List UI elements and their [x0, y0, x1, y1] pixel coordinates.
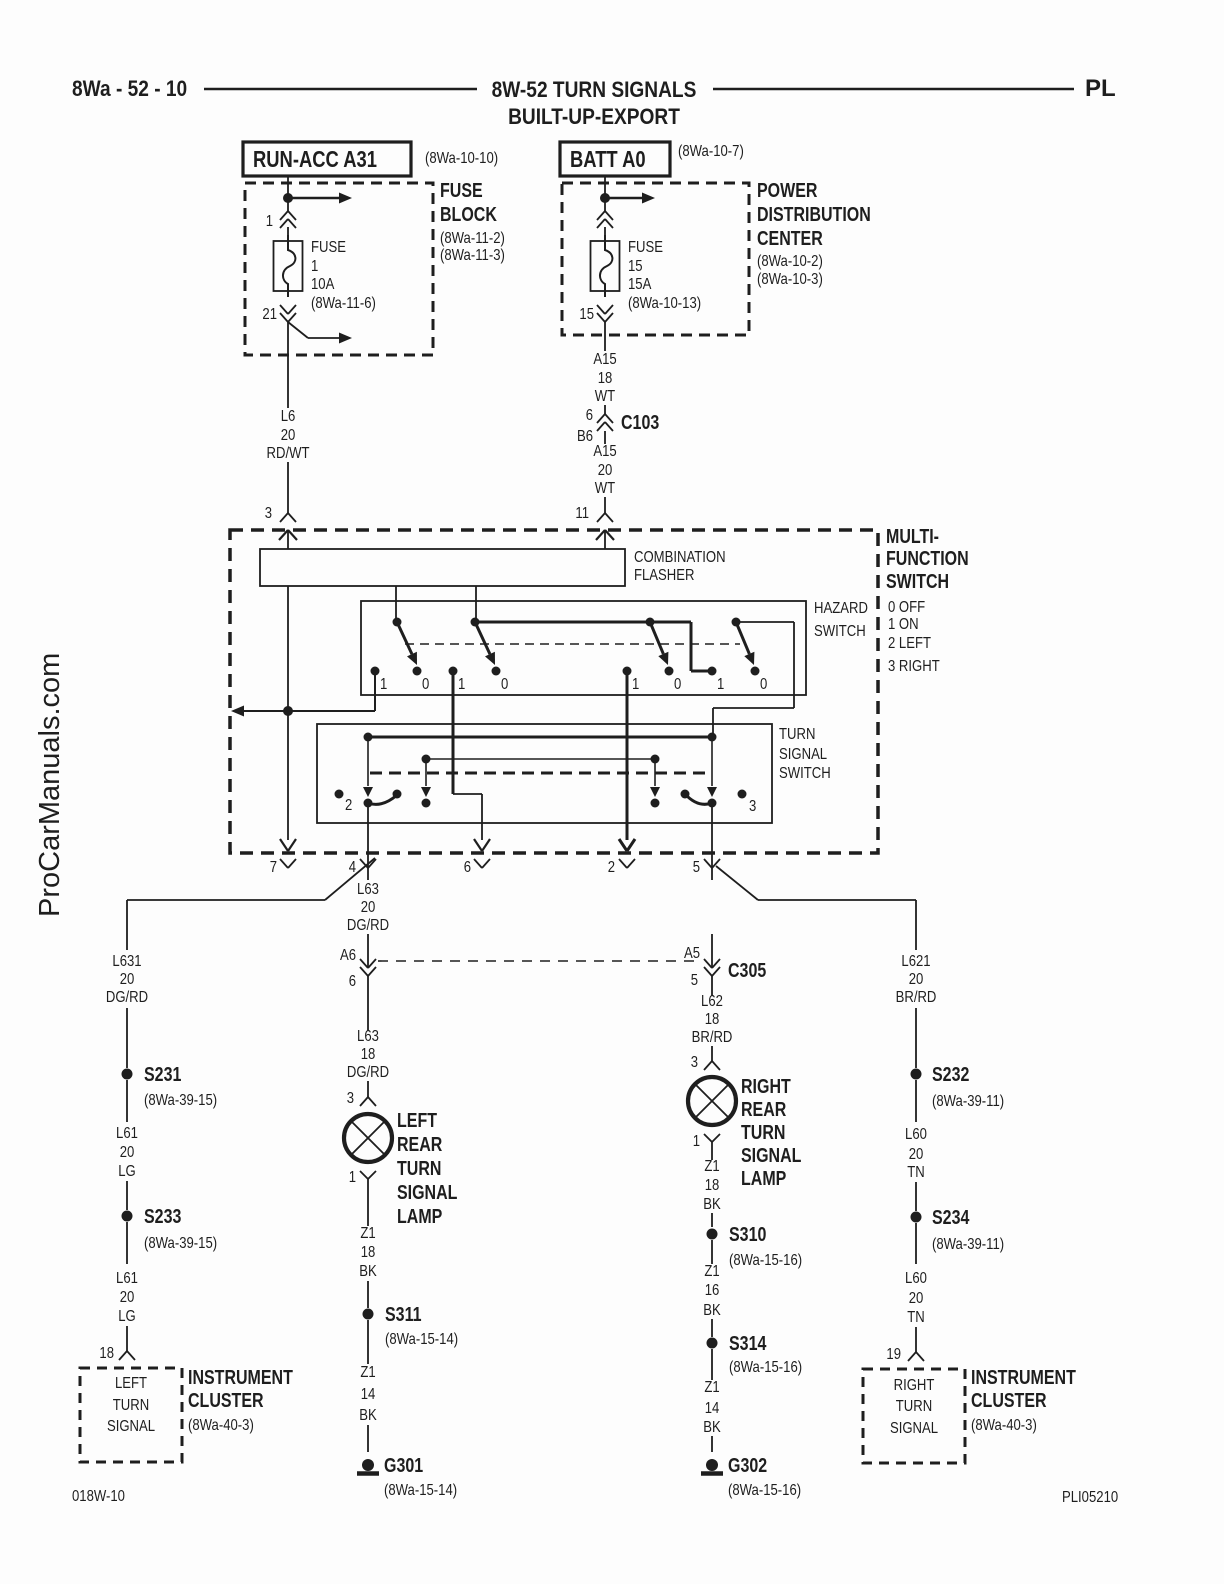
- svg-text:018W-10: 018W-10: [72, 1488, 125, 1505]
- header rule left: [204, 88, 477, 91]
- svg-text:(8Wa-11-6): (8Wa-11-6): [311, 295, 376, 312]
- turn switch mechanical dashed: [370, 772, 712, 775]
- svg-text:20: 20: [361, 899, 376, 916]
- wire to pin 3: [287, 462, 289, 513]
- svg-text:SIGNAL: SIGNAL: [890, 1420, 938, 1437]
- svg-text:(8Wa-39-15): (8Wa-39-15): [144, 1235, 217, 1252]
- svg-text:SWITCH: SWITCH: [814, 623, 866, 640]
- svg-text:(8Wa-40-3): (8Wa-40-3): [188, 1417, 254, 1434]
- svg-text:RD/WT: RD/WT: [267, 445, 310, 462]
- svg-text:21: 21: [262, 306, 277, 323]
- svg-text:INSTRUMENT: INSTRUMENT: [188, 1366, 293, 1388]
- splice S310: [707, 1229, 718, 1240]
- branch wire to right instrument cluster: [716, 866, 758, 900]
- splice S231: [122, 1069, 133, 1080]
- svg-text:L63: L63: [357, 881, 379, 898]
- svg-text:L60: L60: [905, 1270, 927, 1287]
- svg-text:BK: BK: [703, 1302, 721, 1319]
- svg-text:A5: A5: [684, 945, 700, 962]
- svg-text:(8Wa-39-11): (8Wa-39-11): [932, 1236, 1004, 1253]
- wire contact 3-1 down to pin 2: [626, 671, 629, 840]
- turn switch common row: [368, 736, 712, 739]
- svg-text:C305: C305: [728, 959, 766, 981]
- svg-text:(8Wa-40-3): (8Wa-40-3): [971, 1417, 1037, 1434]
- svg-text:2: 2: [608, 859, 615, 876]
- svg-text:20: 20: [120, 971, 135, 988]
- svg-text:15: 15: [579, 306, 594, 323]
- svg-text:L61: L61: [116, 1125, 138, 1142]
- svg-text:LAMP: LAMP: [741, 1167, 786, 1189]
- svg-text:(8Wa-11-3): (8Wa-11-3): [440, 247, 505, 264]
- svg-text:20: 20: [120, 1289, 135, 1306]
- wire flasher to hazard pole 1: [395, 586, 397, 622]
- pin 4: [360, 859, 368, 868]
- svg-text:FUNCTION: FUNCTION: [886, 547, 969, 569]
- node junction on pin3 wire: [283, 706, 293, 716]
- pin 5: [704, 859, 712, 868]
- switch blade to run circuit: [288, 322, 308, 338]
- svg-text:1: 1: [380, 676, 387, 693]
- svg-text:BR/RD: BR/RD: [896, 989, 937, 1006]
- fuse block dashed box: [245, 183, 433, 355]
- svg-text:POWER: POWER: [757, 179, 817, 201]
- svg-text:SWITCH: SWITCH: [886, 570, 949, 592]
- svg-text:2 LEFT: 2 LEFT: [888, 635, 931, 652]
- hazard contacts: [371, 667, 380, 676]
- svg-text:(8Wa-10-10): (8Wa-10-10): [425, 150, 498, 167]
- branch wire to left instrument cluster: [325, 858, 375, 900]
- svg-text:L62: L62: [701, 993, 723, 1010]
- svg-text:18: 18: [598, 370, 613, 387]
- svg-text:L61: L61: [116, 1270, 138, 1287]
- svg-text:L631: L631: [112, 953, 141, 970]
- svg-text:DG/RD: DG/RD: [347, 917, 389, 934]
- wire turn out to pin 6: [453, 793, 482, 795]
- instrument cluster right dashed box: [863, 1369, 965, 1463]
- svg-text:SIGNAL: SIGNAL: [779, 746, 827, 763]
- svg-text:TURN: TURN: [741, 1121, 785, 1143]
- svg-text:0: 0: [422, 676, 429, 693]
- svg-text:5: 5: [691, 972, 698, 989]
- splice S234: [911, 1212, 922, 1223]
- svg-text:PLI05210: PLI05210: [1062, 1489, 1118, 1506]
- svg-text:L621: L621: [901, 953, 930, 970]
- svg-text:8W-52 TURN SIGNALS: 8W-52 TURN SIGNALS: [492, 78, 697, 103]
- turn wiper right: [711, 737, 713, 786]
- hazard blade 2: [475, 622, 490, 654]
- svg-text:3 RIGHT: 3 RIGHT: [888, 658, 940, 675]
- connector C305 link dashed: [378, 960, 700, 962]
- svg-text:TURN: TURN: [896, 1398, 932, 1415]
- svg-text:Z1: Z1: [360, 1364, 375, 1381]
- wire BATT to fuse 15: [604, 176, 606, 211]
- svg-text:BK: BK: [703, 1419, 721, 1436]
- svg-text:0 OFF: 0 OFF: [888, 599, 925, 616]
- svg-text:20: 20: [120, 1144, 135, 1161]
- svg-text:S231: S231: [144, 1063, 181, 1085]
- pin 7: [280, 839, 288, 851]
- hazard switch box: [361, 601, 806, 695]
- svg-text:DG/RD: DG/RD: [347, 1064, 389, 1081]
- wire branch arrow: [288, 197, 340, 199]
- svg-text:DG/RD: DG/RD: [106, 989, 148, 1006]
- svg-text:1: 1: [632, 676, 639, 693]
- wire pole4 to turn signal common: [736, 621, 794, 623]
- hazard mechanical link dashed: [405, 643, 740, 645]
- wire flasher to hazard pole 2: [475, 586, 477, 622]
- contact 2 left: [335, 790, 344, 799]
- svg-text:(8Wa-10-13): (8Wa-10-13): [628, 295, 701, 312]
- combination flasher box: [260, 549, 625, 586]
- svg-text:15A: 15A: [628, 276, 652, 293]
- pin 2: [619, 839, 627, 851]
- ground G302: [706, 1459, 718, 1471]
- svg-text:1: 1: [349, 1169, 356, 1186]
- svg-text:6: 6: [464, 859, 471, 876]
- splice S233: [122, 1211, 133, 1222]
- svg-text:BATT A0: BATT A0: [570, 147, 646, 172]
- contact 3 right: [738, 790, 747, 799]
- pin 6: [474, 839, 482, 851]
- svg-text:CENTER: CENTER: [757, 227, 823, 249]
- svg-text:18: 18: [99, 1345, 114, 1362]
- power feed box BATT A0: [560, 142, 670, 176]
- fuse F15 15A: [591, 241, 620, 291]
- svg-text:3: 3: [749, 798, 756, 815]
- wire RUN-ACC to fuse 1: [287, 176, 289, 211]
- svg-text:B6: B6: [577, 428, 593, 445]
- svg-text:1: 1: [458, 676, 465, 693]
- svg-text:LEFT: LEFT: [115, 1375, 147, 1392]
- svg-text:PL: PL: [1085, 75, 1116, 102]
- svg-text:(8Wa-15-16): (8Wa-15-16): [729, 1359, 802, 1376]
- svg-text:BLOCK: BLOCK: [440, 203, 497, 225]
- svg-text:BR/RD: BR/RD: [692, 1029, 733, 1046]
- pin chevron: [597, 211, 605, 220]
- svg-text:RIGHT: RIGHT: [741, 1075, 791, 1097]
- svg-text:1: 1: [311, 258, 318, 275]
- header rule right: [713, 88, 1074, 91]
- wire branch arrow: [605, 197, 643, 199]
- svg-text:5: 5: [693, 859, 700, 876]
- svg-text:RIGHT: RIGHT: [894, 1377, 935, 1394]
- fuse F1 10A: [274, 241, 303, 291]
- svg-text:20: 20: [281, 427, 296, 444]
- turn signal switch box: [317, 724, 772, 823]
- svg-text:ProCarManuals.com: ProCarManuals.com: [34, 653, 66, 917]
- splice S314: [707, 1338, 718, 1349]
- svg-text:G302: G302: [728, 1454, 767, 1476]
- svg-text:18: 18: [361, 1046, 376, 1063]
- wire pole2 bus to contact 4-1: [475, 621, 691, 624]
- svg-text:INSTRUMENT: INSTRUMENT: [971, 1366, 1076, 1388]
- svg-text:7: 7: [270, 859, 277, 876]
- wire flasher to pin 7: [287, 586, 289, 840]
- svg-text:SIGNAL: SIGNAL: [397, 1181, 457, 1203]
- svg-text:HAZARD: HAZARD: [814, 600, 868, 617]
- svg-text:(8Wa-10-7): (8Wa-10-7): [678, 143, 744, 160]
- hazard pole pivots: [393, 618, 402, 627]
- turn wiper mid-left: [425, 759, 427, 786]
- svg-text:18: 18: [705, 1011, 720, 1028]
- right rear turn signal lamp: [688, 1077, 736, 1125]
- svg-text:LEFT: LEFT: [397, 1109, 437, 1131]
- svg-text:1: 1: [693, 1133, 700, 1150]
- svg-text:2: 2: [345, 797, 352, 814]
- power distribution center dashed box: [562, 183, 749, 335]
- svg-text:SWITCH: SWITCH: [779, 765, 831, 782]
- turn wiper mid-right: [654, 759, 656, 786]
- svg-text:LG: LG: [118, 1308, 136, 1325]
- svg-text:16: 16: [705, 1282, 720, 1299]
- svg-text:(8Wa-15-14): (8Wa-15-14): [385, 1331, 458, 1348]
- svg-text:G301: G301: [384, 1454, 423, 1476]
- svg-text:15: 15: [628, 258, 643, 275]
- wire turn right output to pin 5: [711, 803, 713, 880]
- svg-text:20: 20: [598, 462, 613, 479]
- svg-text:Z1: Z1: [704, 1379, 719, 1396]
- svg-text:TN: TN: [907, 1309, 924, 1326]
- svg-text:WT: WT: [595, 388, 615, 405]
- svg-text:S310: S310: [729, 1223, 766, 1245]
- wire to pin 11: [604, 497, 606, 513]
- svg-text:TURN: TURN: [397, 1157, 441, 1179]
- svg-text:CLUSTER: CLUSTER: [971, 1389, 1047, 1411]
- node fuse block feed: [283, 193, 293, 203]
- svg-text:3: 3: [265, 505, 272, 522]
- svg-text:CLUSTER: CLUSTER: [188, 1389, 264, 1411]
- svg-text:19: 19: [886, 1346, 901, 1363]
- svg-text:0: 0: [501, 676, 508, 693]
- svg-text:Z1: Z1: [704, 1263, 719, 1280]
- svg-text:WT: WT: [595, 480, 615, 497]
- node PDC feed: [600, 193, 610, 203]
- svg-text:TN: TN: [907, 1164, 924, 1181]
- svg-text:FLASHER: FLASHER: [634, 567, 695, 584]
- svg-text:(8Wa-39-11): (8Wa-39-11): [932, 1093, 1004, 1110]
- hazard blade 1: [397, 622, 412, 654]
- svg-text:(8Wa-10-3): (8Wa-10-3): [757, 271, 823, 288]
- svg-text:C103: C103: [621, 411, 659, 433]
- splice S232: [911, 1069, 922, 1080]
- wire contact 2-1 down to turn switch: [452, 671, 455, 794]
- svg-text:BK: BK: [359, 1263, 377, 1280]
- svg-text:RUN-ACC A31: RUN-ACC A31: [253, 147, 377, 172]
- left rear turn signal lamp: [344, 1114, 392, 1162]
- svg-text:0: 0: [760, 676, 767, 693]
- turn wiper left: [367, 737, 369, 786]
- svg-text:6: 6: [586, 407, 593, 424]
- svg-text:6: 6: [349, 973, 356, 990]
- svg-text:FUSE: FUSE: [311, 239, 346, 256]
- svg-text:18: 18: [361, 1244, 376, 1261]
- svg-text:S314: S314: [729, 1332, 766, 1354]
- svg-text:BUILT-UP-EXPORT: BUILT-UP-EXPORT: [508, 105, 680, 130]
- svg-text:(8Wa-11-2): (8Wa-11-2): [440, 230, 505, 247]
- svg-text:REAR: REAR: [397, 1133, 442, 1155]
- svg-text:14: 14: [361, 1386, 376, 1403]
- svg-text:L6: L6: [281, 408, 296, 425]
- svg-text:MULTI-: MULTI-: [886, 525, 939, 547]
- turn blade right: [685, 794, 712, 804]
- wire A15 18 WT: [604, 322, 606, 351]
- svg-text:A15: A15: [593, 351, 616, 368]
- svg-text:20: 20: [909, 971, 924, 988]
- turn blade left: [368, 795, 397, 804]
- svg-text:8Wa - 52 - 10: 8Wa - 52 - 10: [72, 77, 187, 102]
- wire turn left output to pin 4: [367, 803, 369, 880]
- svg-text:BK: BK: [703, 1196, 721, 1213]
- svg-text:DISTRIBUTION: DISTRIBUTION: [757, 203, 871, 225]
- svg-text:20: 20: [909, 1146, 924, 1163]
- svg-text:A15: A15: [593, 443, 616, 460]
- svg-text:A6: A6: [340, 947, 356, 964]
- svg-text:TURN: TURN: [779, 726, 815, 743]
- multi-function switch dashed box: [230, 530, 878, 853]
- svg-text:(8Wa-10-2): (8Wa-10-2): [757, 253, 823, 270]
- svg-text:Z1: Z1: [704, 1158, 719, 1175]
- svg-text:SIGNAL: SIGNAL: [107, 1418, 155, 1435]
- svg-text:1 ON: 1 ON: [888, 616, 919, 633]
- connector C305 pin A5: [711, 934, 713, 967]
- svg-text:SIGNAL: SIGNAL: [741, 1144, 801, 1166]
- svg-text:(8Wa-15-16): (8Wa-15-16): [729, 1252, 802, 1269]
- svg-text:FUSE: FUSE: [440, 179, 483, 201]
- svg-text:S311: S311: [385, 1303, 421, 1325]
- svg-text:0: 0: [674, 676, 681, 693]
- hazard blade 4: [736, 622, 749, 654]
- svg-text:(8Wa-39-15): (8Wa-39-15): [144, 1092, 217, 1109]
- svg-text:(8Wa-15-16): (8Wa-15-16): [728, 1482, 801, 1499]
- svg-text:S233: S233: [144, 1205, 181, 1227]
- svg-text:14: 14: [705, 1400, 720, 1417]
- svg-text:3: 3: [691, 1054, 698, 1071]
- svg-text:Z1: Z1: [360, 1225, 375, 1242]
- instrument cluster left dashed box: [80, 1368, 182, 1462]
- ground G301: [362, 1459, 374, 1471]
- svg-text:S232: S232: [932, 1063, 969, 1085]
- turn switch second row: [426, 758, 655, 760]
- power feed box RUN-ACC A31: [243, 142, 411, 176]
- svg-text:LAMP: LAMP: [397, 1205, 442, 1227]
- wire L6 down: [287, 322, 289, 408]
- svg-text:10A: 10A: [311, 276, 335, 293]
- svg-text:REAR: REAR: [741, 1098, 786, 1120]
- svg-text:1: 1: [717, 676, 724, 693]
- svg-text:L60: L60: [905, 1126, 927, 1143]
- svg-text:18: 18: [705, 1177, 720, 1194]
- svg-text:TURN: TURN: [113, 1397, 149, 1414]
- svg-text:LG: LG: [118, 1163, 136, 1180]
- svg-text:FUSE: FUSE: [628, 239, 663, 256]
- svg-text:3: 3: [347, 1090, 354, 1107]
- svg-text:S234: S234: [932, 1206, 969, 1228]
- wire contact 1-1 to feed junction: [374, 671, 376, 711]
- svg-text:(8Wa-15-14): (8Wa-15-14): [384, 1482, 457, 1499]
- svg-text:COMBINATION: COMBINATION: [634, 549, 726, 566]
- hazard blade 3: [650, 622, 663, 654]
- svg-text:BK: BK: [359, 1407, 377, 1424]
- svg-text:20: 20: [909, 1290, 924, 1307]
- splice S311: [363, 1309, 374, 1320]
- svg-text:11: 11: [575, 505, 589, 522]
- svg-text:1: 1: [266, 213, 273, 230]
